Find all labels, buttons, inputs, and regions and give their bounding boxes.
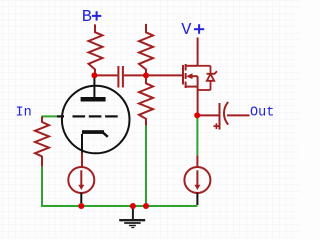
current source I1 [68,167,94,193]
diode D1 (body zener) [198,66,217,90]
wire V+ lead / drain [197,38,199,66]
svg-text:Out: Out [250,105,274,120]
wire anode rail to C1 [94,74,117,76]
current source I2 [184,167,210,193]
wire gate rail [146,74,182,76]
plus mark C2 [213,123,219,129]
resistor R1 [89,24,103,75]
resistor R3 [139,75,153,125]
wire green source down [196,115,198,155]
wire I2 bottom lead [196,193,198,205]
junction node gate [143,72,149,78]
wire cathode to I1 [81,153,83,168]
wire ground rail [41,205,197,207]
tube V1 anode lead [93,75,95,97]
capacitor C2 (polarized) [220,102,229,130]
svg-text:B: B [82,8,92,27]
junction node source/out [194,112,200,118]
wire green down from R4 [41,167,43,206]
tube V1 grid dashes [57,115,118,117]
tube V1 envelope [62,86,130,154]
junction node I1 gnd [78,203,84,209]
wire out rail left [197,114,218,116]
wire I1 bottom lead [80,193,82,206]
tube V1 anode plate [81,97,106,102]
junction node gnd symbol [130,203,136,209]
junction node anode [91,72,97,78]
wire In lead [42,115,58,117]
resistor R4 (input) [35,116,49,166]
tube V1 cathode lead [81,134,83,153]
wire source to I2 [196,155,198,167]
ground symbol [119,206,145,228]
wire C1 to node G2 [124,74,146,76]
wire source lead [197,87,199,116]
svg-text:V: V [181,21,192,40]
resistor R2 [139,24,153,76]
tube V1 cathode [82,130,104,134]
wire green down from R3 [145,126,147,207]
junction node R3 gnd [143,203,149,209]
capacitor C1 [118,66,123,88]
wire out rail right [227,114,250,116]
svg-text:In: In [16,105,32,120]
transistor M1 (MOSFET) [183,64,198,88]
